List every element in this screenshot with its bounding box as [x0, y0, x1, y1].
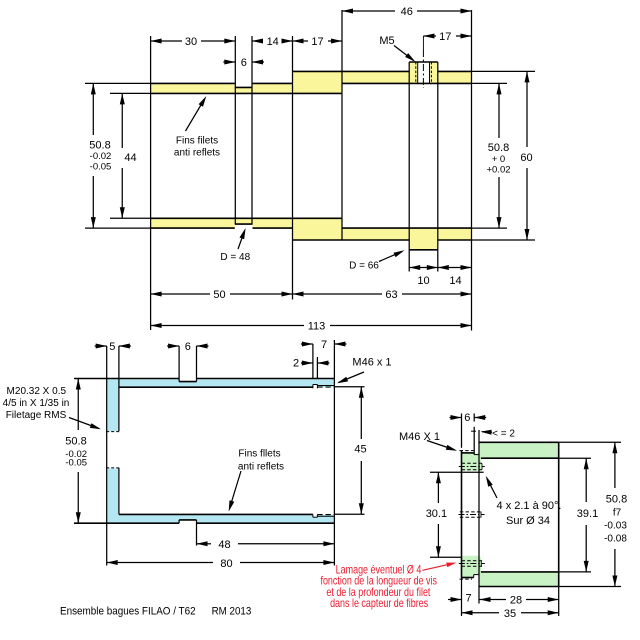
top wall band fill: [107, 379, 334, 387]
svg-text:RM 2013: RM 2013: [212, 606, 252, 618]
left wall outer face line x=106.7: [106, 346, 108, 566]
dim 48: [197, 543, 212, 545]
svg-text:-0.08: -0.08: [604, 534, 627, 545]
body outer-diameter top line (50.8 f7): [479, 441, 559, 443]
bottom band groove cut: [179, 520, 196, 523]
dim 50.8 f7 -0.03 -0.08: [614, 442, 616, 488]
dim 46 top: [342, 10, 395, 12]
dim 60: [526, 71, 528, 147]
svg-text:39.1: 39.1: [577, 508, 598, 520]
svg-text:< = 2: < = 2: [492, 428, 515, 439]
svg-text:60: 60: [520, 152, 532, 164]
svg-text:anti reflets: anti reflets: [174, 148, 220, 159]
bottom flange fill (D=66): [409, 239, 438, 249]
leader arrow D=48: [238, 231, 245, 249]
neck column fill bottom: [479, 557, 482, 572]
right ring lower wall fill: [342, 229, 472, 240]
dim 2 relief (outside arrows): [301, 362, 313, 364]
flange top solid line: [462, 452, 475, 454]
svg-text:-0.05: -0.05: [65, 458, 87, 469]
top band groove cut: [179, 378, 196, 382]
left wall inner face line upper: [118, 346, 120, 431]
extension x=558.7 below body: [558, 587, 560, 616]
channel floor line: [474, 454, 479, 456]
svg-text:50.8: 50.8: [65, 436, 86, 448]
svg-text:M5: M5: [379, 35, 394, 47]
top band right-end thread relief notch: [313, 385, 318, 389]
extension for 6 dim at lip: [473, 414, 475, 422]
body bore top line (39.1): [481, 457, 559, 459]
svg-text:30.1: 30.1: [426, 508, 447, 520]
svg-text:dans le capteur de fibres: dans le capteur de fibres: [330, 598, 428, 610]
flange left face + extensions x=461.5: [461, 414, 463, 448]
svg-text:M46 X 1: M46 X 1: [399, 431, 440, 443]
dim 35: [462, 612, 500, 614]
internal shoulder line x=342: [341, 10, 343, 240]
svg-text:anti reflets: anti reflets: [238, 462, 284, 473]
bottom relief notch floor line: [313, 516, 318, 518]
leader arrow D=66: [379, 252, 402, 262]
svg-text:6: 6: [185, 341, 191, 353]
bottom band bore line: [119, 513, 313, 515]
dim 50: [151, 293, 210, 295]
svg-text:28: 28: [510, 595, 522, 607]
leader arrow to top wall: [186, 99, 205, 131]
bottom groove floor line D=48: [235, 223, 253, 225]
hole-1 centerline dash-dot with tick: [459, 466, 485, 468]
svg-text:14: 14: [267, 36, 279, 48]
groove left edge line x=235.3: [234, 36, 236, 224]
dim 28 with shared arrow: [479, 599, 494, 601]
top band bore line: [119, 386, 313, 388]
left ring upper groove cut (D=48): [235, 83, 253, 88]
extension lines 39.1: [559, 457, 591, 459]
svg-text:2: 2: [293, 358, 299, 370]
left ring bore top line (44): [151, 92, 342, 94]
svg-text:6: 6: [464, 412, 470, 424]
top M46 thread bore solid line: [317, 385, 334, 387]
right ring bore top line (50.8): [342, 82, 472, 84]
leader arrow countersink: [487, 479, 497, 499]
thread relief channel left line: [473, 427, 475, 455]
svg-text:M46 x 1: M46 x 1: [352, 357, 391, 369]
svg-text:M20.32 X 0.5: M20.32 X 0.5: [7, 386, 67, 397]
leader arrow to bottom band: [230, 471, 242, 509]
M5 boss fill (top flange): [409, 62, 438, 72]
lamage step vertical: [473, 575, 475, 578]
svg-text:-0.03: -0.03: [604, 521, 627, 532]
svg-text:113: 113: [308, 321, 326, 333]
dim 45: [360, 387, 362, 439]
dim 5 wall thickness (outside arrows): [95, 345, 107, 347]
dim 6 groove (outside arrows): [167, 345, 179, 347]
left ring bore bottom line (44): [151, 217, 342, 219]
bottom groove floor line: [179, 519, 196, 521]
RMS thread hole upper dashed line: [106, 431, 119, 433]
dim 39.1: [585, 458, 587, 502]
right ring upper wall fill: [342, 72, 472, 83]
svg-text:f7: f7: [613, 508, 622, 519]
svg-text:46: 46: [401, 6, 413, 18]
svg-text:Filetage RMS: Filetage RMS: [6, 410, 67, 421]
extension lines 50.8 f7: [559, 441, 621, 443]
bottom flange bottom line D=66: [409, 249, 438, 251]
red leader arrow: [423, 563, 454, 570]
svg-text:D = 66: D = 66: [349, 261, 379, 272]
svg-text:5: 5: [109, 341, 115, 353]
dim 7 thread length (outside arrows): [301, 343, 313, 345]
svg-text:50.8: 50.8: [488, 142, 509, 154]
top groove floor line: [179, 381, 196, 383]
dim 50.8 -0.02 -0.05 (bottom-left): [77, 379, 79, 431]
RMS thread hole lower dashed line: [106, 467, 119, 469]
svg-text:Sur Ø 34: Sur Ø 34: [506, 515, 550, 527]
top band outer line, split at groove: [74, 378, 179, 380]
bottom M46 thread bore solid line: [317, 515, 334, 517]
svg-text:+0.02: +0.02: [486, 165, 510, 176]
svg-text:10: 10: [417, 275, 429, 287]
svg-text:7: 7: [321, 339, 327, 351]
flange left silhouette line x=409.2: [408, 62, 410, 272]
dim 14 bottom: [438, 267, 472, 269]
body right end face: [558, 442, 560, 586]
svg-text:80: 80: [220, 558, 232, 570]
hole-2 (4x2.1) lower dashed lines: [462, 560, 484, 562]
svg-text:50.8: 50.8: [606, 494, 627, 506]
flange M46 thread dashed line bottom: [460, 578, 473, 580]
dim 30.1: [437, 472, 439, 503]
svg-text:7: 7: [465, 593, 471, 605]
svg-text:17: 17: [311, 36, 323, 48]
flange M46 thread dashed line top: [460, 450, 474, 452]
bottom groove right edge + extension for 48: [196, 520, 198, 546]
svg-text:14: 14: [449, 275, 461, 287]
top groove floor line D=48: [235, 86, 253, 88]
dim 7 (flange, outside arrows): [448, 599, 462, 601]
dim 44: [121, 93, 123, 148]
svg-text:30: 30: [185, 36, 197, 48]
bottom band outer line, split at groove: [74, 522, 179, 524]
left ring left face + extension line x=150.6: [150, 36, 152, 330]
svg-text:Fins fllets: Fins fllets: [238, 449, 280, 460]
dim 6 (flange thickness, outside arrows): [450, 417, 462, 419]
left wall inner face line lower: [118, 468, 120, 514]
dim 10 bottom flange: [409, 267, 438, 269]
dim 113: [151, 325, 304, 327]
flange right face / body left edge line: [478, 430, 480, 604]
M5 hole cut in boss: [418, 61, 430, 83]
right end face line x=334.4: [333, 340, 335, 566]
left ring lower wall fill: [151, 219, 293, 228]
extension lines 60: [472, 70, 536, 72]
thread relief edge x=317.4: [316, 357, 318, 379]
svg-text:+ 0: + 0: [492, 154, 505, 165]
top groove left edge: [178, 346, 180, 382]
left wall fill lower part: [107, 469, 118, 523]
body bore bottom line: [481, 571, 559, 573]
hole-2 centerline dash-dot with tick: [459, 563, 485, 565]
extension lines for 50.8 left: [85, 82, 151, 84]
top relief notch side edges: [312, 385, 314, 389]
svg-text:6: 6: [241, 57, 247, 69]
right ring outer-diameter bottom line (60), split at flange: [293, 239, 410, 241]
right ring outer-diameter top line (60), split at boss: [293, 70, 410, 72]
bottom band right-end thread relief notch: [313, 513, 318, 517]
M5 boss top line: [409, 61, 438, 63]
groove right edge line x=252: [251, 36, 253, 224]
thread relief edge x=312.9 (ext for 7 and 2): [312, 344, 314, 379]
leader arrow RMS thread: [69, 418, 99, 429]
dim 80: [107, 562, 213, 564]
right ring bore bottom line (50.8): [342, 227, 472, 229]
dim 17 second (M5 position): [423, 35, 436, 37]
svg-text:17: 17: [439, 31, 451, 43]
svg-text:63: 63: [385, 289, 397, 301]
left ring upper wall fill: [151, 84, 293, 93]
bottom wall band fill: [107, 515, 334, 523]
flange bottom green fill (lamage zone): [462, 556, 474, 577]
leader arrow M46X1 right drawing: [427, 441, 455, 451]
svg-text:4 x 2.1 à 90°.: 4 x 2.1 à 90°.: [497, 500, 562, 512]
dim 17 first: [293, 40, 309, 42]
extension lines for 30.1: [430, 471, 484, 473]
svg-text:-0.05: -0.05: [90, 162, 112, 173]
svg-text:Fins filets: Fins filets: [176, 136, 218, 147]
extension lines for 45: [334, 386, 364, 388]
center bore centerline dash-dot with tick: [459, 514, 485, 516]
svg-text:50.8: 50.8: [89, 140, 110, 152]
svg-text:35: 35: [504, 608, 516, 620]
extension lines for 44: [110, 92, 151, 94]
top groove right edge: [196, 346, 198, 382]
step edge / joint line x=292.5: [292, 36, 294, 300]
svg-text:48: 48: [218, 539, 230, 551]
dim 14 top: [252, 40, 263, 42]
flange right silhouette line x=437.8: [437, 62, 439, 272]
right ring lower shoulder fill block: [293, 219, 343, 240]
svg-text:44: 44: [124, 152, 136, 164]
flange top green fill: [462, 453, 479, 470]
dim 63: [293, 293, 383, 295]
svg-text:4/5 in X 1/35 in: 4/5 in X 1/35 in: [3, 398, 70, 409]
dim 50.8 +0 +0.02 right: [498, 83, 500, 138]
svg-text:fonction de la longueur de vis: fonction de la longueur de vis: [320, 576, 437, 588]
svg-text:D = 48: D = 48: [220, 252, 250, 263]
lamage step horizontal: [474, 574, 479, 576]
M5 hole wall right (solid): [429, 62, 431, 83]
svg-text:50: 50: [213, 289, 225, 301]
left ring lower groove cut (D=48): [235, 224, 253, 228]
body outer-diameter bottom line: [479, 586, 559, 588]
left wall fill upper part: [107, 379, 118, 431]
top M46 thread dashed line: [317, 386, 334, 388]
M5 thread line left (dotted): [415, 62, 417, 83]
svg-text:45: 45: [354, 444, 366, 456]
bottom M46 thread dashed line: [317, 514, 334, 516]
channel cap line: [471, 430, 476, 432]
dim 30: [151, 40, 182, 42]
dim 6 groove (outside arrows): [223, 61, 235, 63]
left ring outer-diameter top line (50.8), split at groove: [151, 82, 235, 84]
svg-text:Ensemble bagues FILAO / T62: Ensemble bagues FILAO / T62: [60, 606, 196, 618]
leader arrow M46x1: [339, 372, 365, 383]
right ring upper shoulder fill block: [293, 72, 343, 93]
neck column fill below channel: [479, 458, 482, 471]
right ring right face + extension x=471.5: [471, 10, 473, 331]
dim 50.8 -0.02 -0.05 left: [92, 83, 94, 135]
top relief notch floor line: [313, 384, 318, 386]
body bottom band fill: [479, 572, 559, 587]
flange bottom solid line: [462, 577, 474, 579]
svg-text:-0.02: -0.02: [90, 151, 112, 162]
M5 hole wall left (solid): [417, 62, 419, 83]
left ring outer-diameter bottom line (50.8), split at groove: [151, 227, 235, 229]
M5 thread line right (dotted): [430, 62, 432, 83]
body top band fill: [479, 443, 559, 458]
M5 hole centerline (dash-dot): [422, 36, 424, 50]
hole-1 (4x2.1) upper dashed lines: [462, 462, 484, 464]
bottom groove left edge: [178, 520, 180, 523]
extension lines 50.8 right: [472, 82, 508, 84]
center bore dashed lines: [460, 511, 483, 513]
bottom relief notch edges: [312, 514, 314, 517]
